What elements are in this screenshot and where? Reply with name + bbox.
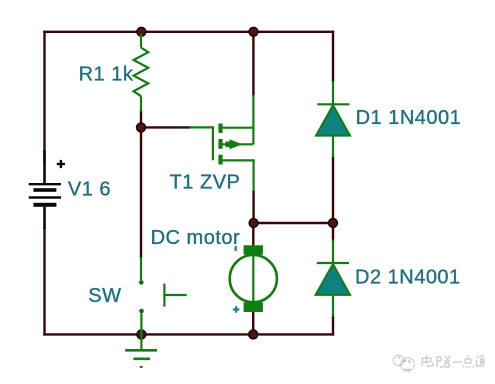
svg-text:R1 1k: R1 1k [79,63,134,85]
svg-text:D2 1N4001: D2 1N4001 [355,266,461,288]
svg-text:V1 6: V1 6 [68,179,111,201]
svg-text:DC motor: DC motor [151,227,241,249]
svg-text:D1 1N4001: D1 1N4001 [356,107,462,129]
svg-text:T1 ZVP: T1 ZVP [170,171,241,193]
svg-text:SW: SW [88,285,121,307]
